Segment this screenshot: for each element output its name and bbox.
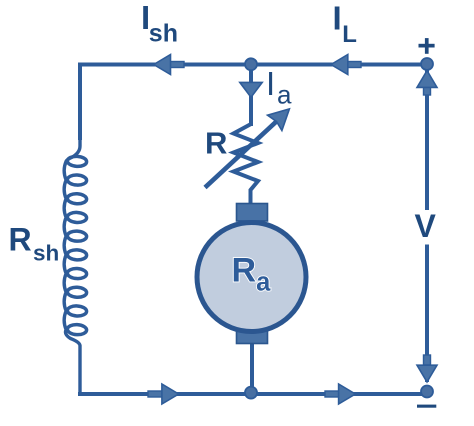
brush top rectangle — [237, 204, 268, 222]
motor armature circle Ra — [197, 223, 306, 332]
arrow right-top pointing up — [417, 71, 437, 95]
minus sign terminal — [417, 405, 436, 408]
arrow bottom-left pointing right — [148, 384, 179, 404]
rheostat R zigzag — [234, 124, 259, 205]
junction node bottom right — [421, 386, 433, 398]
rheostat arrowhead — [268, 109, 290, 131]
arrow top-left pointing left — [154, 55, 184, 75]
svg-text:V: V — [415, 208, 437, 244]
svg-text:L: L — [342, 21, 357, 48]
arrow top-right pointing left — [331, 55, 361, 75]
brush bottom rectangle — [237, 330, 268, 344]
junction node top middle — [245, 58, 257, 70]
rheostat diagonal arrow shaft — [205, 120, 278, 188]
junction node top right — [421, 58, 433, 70]
wire top horizontal — [78, 63, 427, 67]
svg-text:I: I — [266, 65, 275, 102]
arrow right-bottom pointing down — [417, 355, 437, 382]
svg-text:R: R — [9, 221, 32, 257]
wire right vertical upper segment — [425, 64, 429, 210]
svg-text:R: R — [205, 125, 227, 160]
arrow bottom-right pointing right — [325, 384, 355, 404]
svg-text:sh: sh — [33, 241, 59, 266]
arrow middle branch Ia pointing down — [240, 82, 262, 97]
svg-text:I: I — [333, 0, 342, 37]
wire right vertical lower segment — [425, 245, 429, 383]
wire bottom horizontal — [78, 392, 427, 396]
wire left vertical top segment — [78, 63, 82, 141]
inductor Rsh coil — [64, 138, 87, 394]
junction node bottom middle — [245, 387, 257, 399]
svg-text:a: a — [277, 79, 292, 109]
plus sign terminal — [419, 38, 435, 54]
svg-text:sh: sh — [149, 20, 178, 48]
wire middle branch upper — [249, 64, 253, 126]
wire motor to bottom — [250, 340, 254, 394]
